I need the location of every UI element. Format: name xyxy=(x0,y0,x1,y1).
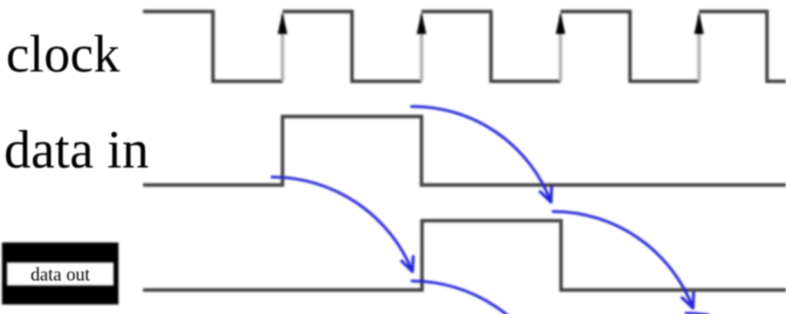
svg-text:data in: data in xyxy=(4,119,149,179)
svg-text:data out: data out xyxy=(31,265,91,286)
svg-text:clock: clock xyxy=(6,25,120,83)
